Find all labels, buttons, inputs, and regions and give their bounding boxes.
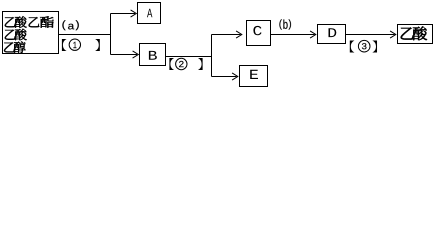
wire: C to D, reaction (b): [271, 34, 315, 36]
wire: B to branch point 2, step [2]: [166, 56, 212, 58]
label: step [2] bracket-open: [169, 58, 173, 70]
box B: [140, 44, 166, 66]
wire: branch-1 vertical: [110, 14, 112, 55]
label: yi-suan (acetic acid) line 2: [5, 30, 16, 40]
label: letter A: [147, 9, 152, 18]
label: letter E: [250, 70, 258, 79]
arrowhead into A: [131, 10, 136, 17]
label: letter C: [253, 26, 261, 35]
label: step [1] bracket-close: [95, 39, 99, 51]
box D: [318, 25, 346, 44]
box C: [247, 21, 271, 46]
label: letter B: [149, 51, 157, 60]
wire: branch 2 to C: [212, 34, 241, 36]
label: circled digit 3 (step 3): [358, 40, 370, 52]
wire: branch 2 to E: [212, 76, 237, 78]
label: reaction condition (a): [62, 20, 65, 30]
label: final product yi-suan (acetic acid): [401, 27, 414, 39]
arrowhead into final box: [391, 31, 396, 38]
label: reaction condition (b): [279, 19, 282, 29]
label: yi-suan-yi-zhi (ethyl acetate) line 1: [5, 17, 16, 27]
label: circled digit 1 (step 1): [69, 39, 80, 50]
wire: mixture box to branch point 1, step (a)/[1]: [59, 34, 111, 36]
wire: branch 1 to A: [111, 13, 136, 15]
label: step [3] bracket-open: [350, 41, 354, 53]
arrowhead into B: [133, 51, 138, 58]
label: step [2] bracket-close: [198, 58, 202, 70]
box A: [138, 3, 161, 24]
label: circled digit 2 (step 2): [176, 58, 187, 69]
box: mixture (ethyl acetate / acetic acid / ethanol): [3, 12, 59, 54]
arrowhead into D: [311, 31, 316, 38]
label: yi-chun (ethanol) line 3: [4, 42, 15, 52]
label: step [1] bracket-open: [62, 39, 66, 51]
box E: [240, 66, 268, 87]
arrowhead into C: [237, 31, 242, 38]
wire: D to final box, step [3]: [346, 34, 395, 36]
label: letter D: [329, 28, 337, 37]
arrowhead into E: [233, 73, 238, 80]
wire: branch 1 to B: [111, 54, 138, 56]
label: step [3] bracket-close: [373, 41, 377, 53]
box: final product (acetic acid): [398, 25, 433, 44]
wire: branch-2 vertical: [211, 35, 213, 77]
